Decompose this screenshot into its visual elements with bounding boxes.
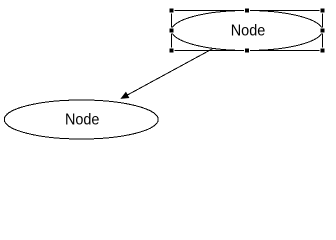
selection handle top-middle xyxy=(244,8,250,14)
arrowhead of edge N1->N2 xyxy=(121,92,129,98)
selection handle top-right xyxy=(320,8,326,14)
selection handle bottom-middle xyxy=(244,48,250,54)
selection handle top-left xyxy=(169,8,175,14)
selection handle middle-left xyxy=(169,28,175,34)
node N1 ellipse (top-right, selected) xyxy=(172,11,323,51)
svg-text:Node: Node xyxy=(65,112,100,129)
svg-text:Node: Node xyxy=(231,23,266,40)
node N2 ellipse (bottom-left) xyxy=(4,100,158,139)
selection handle middle-right xyxy=(320,28,326,34)
selection handle bottom-left xyxy=(169,48,175,54)
wire edge N1->N2 xyxy=(122,49,214,99)
selection handle bottom-right xyxy=(320,48,326,54)
selection rectangle around node N1 xyxy=(172,11,323,51)
